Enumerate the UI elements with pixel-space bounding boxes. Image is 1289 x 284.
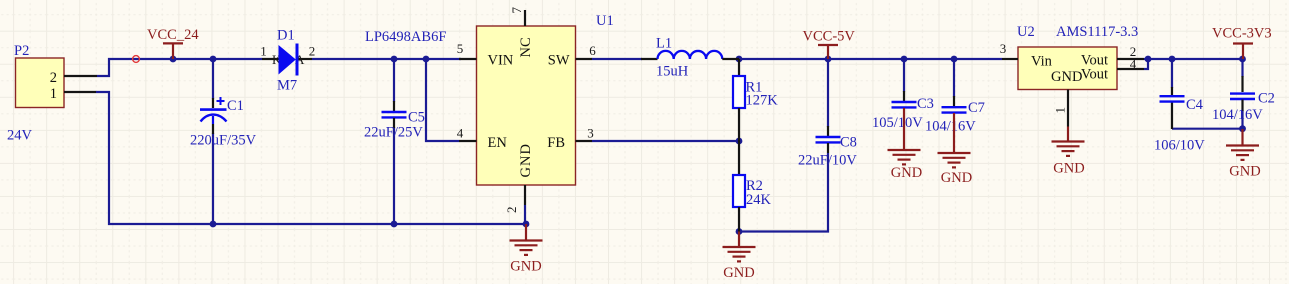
- svg-text:VCC-5V: VCC-5V: [803, 29, 856, 45]
- wire L1 to U2 Vin rail: [739, 58, 1002, 60]
- power port VCC-3V3: [1212, 26, 1272, 60]
- svg-text:24K: 24K: [746, 192, 772, 208]
- wire C4 bottom return: [1172, 128, 1243, 130]
- junction VCC-3V3/C2: [1239, 56, 1246, 63]
- svg-text:2: 2: [504, 207, 519, 214]
- svg-text:22uF/25V: 22uF/25V: [364, 125, 423, 141]
- designator R1: [746, 80, 763, 96]
- ground GND (R2/C8 node): [723, 232, 756, 282]
- junction C1 bottom: [210, 221, 217, 228]
- junction VCC_24: [170, 56, 177, 63]
- designator R2: [746, 178, 763, 194]
- svg-text:C4: C4: [1186, 97, 1204, 113]
- value 106/10V: [1154, 138, 1205, 154]
- junction EN branch: [423, 56, 430, 63]
- svg-text:5: 5: [457, 41, 464, 56]
- designator C7: [968, 100, 985, 116]
- designator C8: [840, 135, 857, 151]
- designator C2: [1258, 91, 1275, 107]
- wire C1 branch bottom: [212, 133, 214, 224]
- svg-text:AMS1117-3.3: AMS1117-3.3: [1056, 24, 1138, 40]
- designator U2: [1017, 24, 1035, 40]
- svg-text:7: 7: [509, 7, 524, 14]
- pin number 4 (U2): [1130, 57, 1137, 72]
- svg-text:127K: 127K: [746, 93, 779, 109]
- ground GND (C3): [888, 108, 923, 181]
- junction C5 bottom: [391, 221, 398, 228]
- pin name EN: [488, 135, 508, 151]
- svg-text:C7: C7: [968, 100, 985, 116]
- ground GND (C7): [938, 113, 973, 186]
- svg-text:L1: L1: [656, 36, 672, 52]
- capacitor C7: [942, 96, 967, 113]
- pin number 4: [457, 126, 464, 141]
- wire U2 pin4 riser: [1144, 59, 1148, 69]
- designator C3: [917, 96, 934, 112]
- designator P2: [14, 43, 29, 59]
- pin number 3: [587, 126, 594, 141]
- pin number 2 (U2): [1130, 44, 1137, 59]
- svg-text:GND: GND: [941, 170, 972, 186]
- pin name Vout (pin2): [1081, 53, 1108, 69]
- pin number 3 (U2): [1000, 41, 1007, 56]
- designator C4: [1186, 97, 1204, 113]
- designator L1: [656, 36, 672, 52]
- designator C1: [227, 98, 244, 114]
- pin number 7: [509, 7, 524, 14]
- svg-text:C5: C5: [408, 110, 425, 126]
- wire EN branch: [426, 59, 459, 141]
- wire C4 branch top: [1171, 59, 1173, 88]
- capacitor C5: [382, 101, 407, 128]
- wire C4 bottom lead: [1171, 102, 1173, 129]
- value AMS1117-3.3: [1056, 24, 1138, 40]
- svg-text:C8: C8: [840, 135, 857, 151]
- svg-text:GND: GND: [510, 259, 541, 275]
- svg-text:3: 3: [587, 126, 594, 141]
- pin name NC: [518, 37, 534, 57]
- wire C2 bottom: [1241, 110, 1243, 129]
- regulator U2 body: [1002, 47, 1144, 127]
- junction C4 top: [1169, 56, 1176, 63]
- value 15uH: [656, 64, 689, 80]
- svg-text:2: 2: [309, 44, 316, 59]
- value 104/16V: [925, 119, 976, 135]
- wire C7 branch: [953, 59, 955, 97]
- svg-text:EN: EN: [488, 135, 508, 151]
- pin number 5: [457, 41, 464, 56]
- ground GND (U1): [510, 224, 543, 275]
- wire C8 branch bottom to GND node: [739, 153, 828, 232]
- wire U1 GND pin to rail: [524, 205, 526, 224]
- value LP6498AB6F: [365, 29, 446, 45]
- svg-text:GND: GND: [1229, 164, 1260, 180]
- pin name VIN: [488, 53, 514, 69]
- wire C5 branch top: [393, 59, 395, 102]
- svg-text:1: 1: [1053, 107, 1068, 114]
- power port VCC_24: [147, 27, 199, 59]
- wire P2 pin1 to bottom GND rail: [96, 92, 526, 224]
- pin name Vin: [1031, 54, 1053, 70]
- value 22uF/10V: [798, 153, 857, 169]
- svg-text:GND: GND: [1051, 69, 1082, 85]
- resistor R1: [733, 59, 745, 141]
- op-amp U1 body: [459, 10, 592, 205]
- wire FB node: [592, 140, 739, 142]
- resistor R2: [733, 141, 745, 232]
- pin number 2 (D1): [309, 44, 316, 59]
- wire C2 branch top: [1241, 59, 1243, 77]
- pin number 2 (U1 GND pin): [504, 207, 519, 214]
- no-ERC marker: [133, 56, 140, 63]
- ground GND (C2/C4): [1226, 129, 1261, 180]
- value 22uF/25V: [364, 125, 423, 141]
- svg-text:2: 2: [50, 70, 57, 86]
- svg-text:104/16V: 104/16V: [925, 119, 976, 135]
- junction C4/C2 bottom: [1239, 125, 1246, 132]
- wire SW to L1: [592, 58, 642, 60]
- capacitor C2: [1230, 76, 1255, 111]
- svg-text:220uF/35V: 220uF/35V: [190, 133, 257, 149]
- value 105/10V: [872, 115, 923, 131]
- pin name SW: [548, 53, 570, 69]
- svg-text:VIN: VIN: [488, 53, 514, 69]
- capacitor C1: [200, 97, 227, 134]
- wire D1 cathode to U1 VIN: [312, 58, 461, 60]
- junction C1 top: [210, 56, 217, 63]
- power port VCC-5V: [803, 29, 856, 60]
- junction C5 top: [391, 56, 398, 63]
- pin number 6: [589, 43, 596, 58]
- svg-text:SW: SW: [548, 53, 570, 69]
- pin name GND (U2): [1051, 69, 1082, 85]
- inductor L1: [641, 51, 739, 59]
- designator D1: [277, 28, 295, 44]
- svg-text:D1: D1: [277, 28, 295, 44]
- svg-text:4: 4: [1130, 57, 1137, 72]
- svg-text:Vin: Vin: [1031, 54, 1053, 70]
- svg-text:VCC_24: VCC_24: [147, 27, 199, 43]
- pin name GND (U1): [518, 143, 534, 177]
- pin name FB: [547, 135, 565, 151]
- designator U1: [596, 13, 614, 29]
- wire P2 pin2 to VCC_24 node: [97, 59, 262, 76]
- pin number 1 (D1): [260, 44, 267, 59]
- value 220uF/35V: [190, 133, 257, 149]
- svg-text:1: 1: [50, 86, 57, 102]
- diode D1: [262, 44, 312, 76]
- svg-text:104/16V: 104/16V: [1212, 107, 1263, 123]
- svg-text:15uH: 15uH: [656, 64, 689, 80]
- value 24K: [746, 192, 772, 208]
- wire C3 branch: [903, 59, 905, 92]
- svg-text:LP6498AB6F: LP6498AB6F: [365, 29, 446, 45]
- svg-text:GND: GND: [518, 143, 534, 177]
- svg-text:6: 6: [589, 43, 596, 58]
- svg-text:106/10V: 106/10V: [1154, 138, 1205, 154]
- svg-text:NC: NC: [518, 37, 534, 57]
- junction C7 top: [951, 56, 958, 63]
- svg-text:GND: GND: [723, 265, 754, 281]
- svg-text:VCC-3V3: VCC-3V3: [1212, 26, 1272, 42]
- wire C1 branch top: [212, 59, 214, 99]
- junction U1 GND: [523, 221, 530, 228]
- svg-text:GND: GND: [891, 165, 922, 181]
- connector P2: [16, 58, 98, 108]
- svg-text:FB: FB: [547, 135, 565, 151]
- svg-text:24V: 24V: [7, 128, 33, 144]
- value M7: [277, 78, 297, 94]
- svg-text:GND: GND: [1053, 161, 1084, 177]
- svg-text:C2: C2: [1258, 91, 1275, 107]
- junction C3 top: [901, 56, 908, 63]
- svg-text:U1: U1: [596, 13, 614, 29]
- junction FB/R1/R2: [736, 138, 743, 145]
- wire U2 pin2 to VCC-3V3 rail: [1144, 58, 1243, 60]
- svg-text:P2: P2: [14, 43, 29, 59]
- svg-text:4: 4: [457, 126, 464, 141]
- pin number 1 (U2): [1053, 107, 1068, 114]
- capacitor C4: [1160, 87, 1185, 102]
- designator C5: [408, 110, 425, 126]
- svg-text:22uF/10V: 22uF/10V: [798, 153, 857, 169]
- pin name Vout (pin4): [1081, 67, 1108, 83]
- wire C8 branch top: [827, 59, 829, 127]
- junction R2/C8 GND node: [736, 228, 743, 235]
- junction VCC-5V/C8: [825, 56, 832, 63]
- value 104/16V (C2): [1212, 107, 1263, 123]
- value 127K: [746, 93, 779, 109]
- junction L1/R1: [736, 56, 743, 63]
- svg-text:3: 3: [1000, 41, 1007, 56]
- wire C5 branch bottom: [393, 127, 395, 224]
- ground GND (U2): [1052, 127, 1085, 177]
- svg-text:M7: M7: [277, 78, 297, 94]
- value 24V: [7, 128, 33, 144]
- junction pin4 join: [1145, 56, 1152, 63]
- capacitor C3: [892, 91, 917, 107]
- svg-text:C3: C3: [917, 96, 934, 112]
- svg-text:105/10V: 105/10V: [872, 115, 923, 131]
- svg-text:C1: C1: [227, 98, 244, 114]
- svg-text:1: 1: [260, 44, 267, 59]
- svg-text:U2: U2: [1017, 24, 1035, 40]
- capacitor C8: [816, 126, 841, 153]
- svg-text:Vout: Vout: [1081, 67, 1108, 83]
